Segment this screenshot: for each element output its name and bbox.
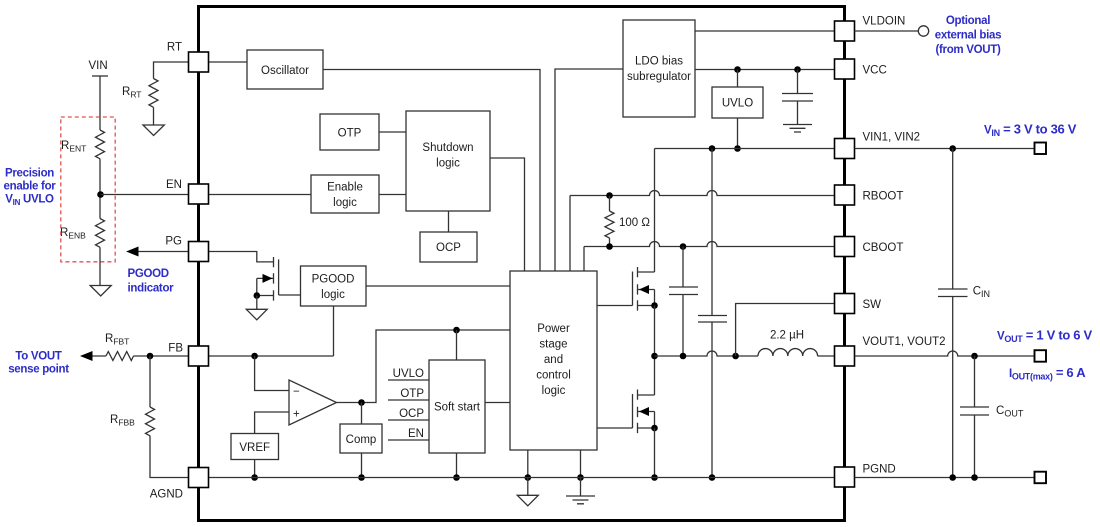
op-amp U3 <box>289 380 337 425</box>
wire EN external <box>101 194 189 196</box>
pin VIN1 VIN2 <box>835 139 855 159</box>
wire shutdown to OCP <box>448 211 450 232</box>
wire SW pin branch <box>736 304 835 357</box>
capacitor CBOOT <box>682 247 684 288</box>
wire LDO to VLDOIN <box>695 30 835 32</box>
svg-text:PGOOD: PGOOD <box>128 268 169 280</box>
terminal circle external bias <box>918 26 928 36</box>
wire VLDOIN external to bias terminal <box>855 30 919 32</box>
svg-text:CBOOT: CBOOT <box>863 242 904 254</box>
svg-text:−: − <box>293 386 300 398</box>
svg-text:Shutdown: Shutdown <box>422 142 473 154</box>
capacitor COUT <box>974 356 976 407</box>
svg-text:To VOUT: To VOUT <box>15 351 62 363</box>
svg-text:external bias: external bias <box>935 30 1001 42</box>
resistor R_RT <box>149 79 158 108</box>
node EN divider junction <box>97 191 104 198</box>
svg-text:EN: EN <box>408 428 424 440</box>
wire <box>99 247 101 285</box>
wire FB external / node <box>134 355 189 357</box>
svg-text:control: control <box>536 370 571 382</box>
wire FB to op-amp inverting input <box>255 356 289 391</box>
svg-text:Optional: Optional <box>946 15 990 27</box>
capacitor VCC bypass <box>797 70 799 94</box>
svg-text:Comp: Comp <box>346 434 377 446</box>
wire UVLO to VIN line <box>737 118 739 149</box>
resistor R_ENT <box>96 130 105 159</box>
resistor R_FBB <box>146 407 155 436</box>
wire PGOOD logic to FB line <box>333 306 335 356</box>
wire OTP to shutdown <box>379 131 406 133</box>
wire VIN down to high-side FET drain <box>654 149 656 273</box>
svg-text:EN: EN <box>166 179 182 191</box>
svg-text:UVLO: UVLO <box>393 368 424 380</box>
wire comp to rail <box>361 453 363 478</box>
wire to comp <box>361 403 363 425</box>
svg-text:PG: PG <box>165 236 182 248</box>
svg-text:LDO bias: LDO bias <box>635 56 683 68</box>
svg-text:VLDOIN: VLDOIN <box>863 16 906 28</box>
svg-text:100 Ω: 100 Ω <box>619 217 650 229</box>
resistor 100 ohm <box>609 196 611 212</box>
pin VCC <box>835 59 855 79</box>
svg-text:RBOOT: RBOOT <box>863 191 904 203</box>
svg-text:Oscillator: Oscillator <box>261 65 309 77</box>
wire EN pin to enable logic <box>209 194 312 196</box>
wire RT to R_RT <box>154 62 189 79</box>
OCP block <box>420 232 477 262</box>
pin FB <box>189 346 209 366</box>
svg-text:SW: SW <box>863 299 882 311</box>
transistor Q2 (low side) <box>597 427 633 429</box>
svg-text:OTP: OTP <box>338 128 362 140</box>
VREF block <box>231 434 279 460</box>
wire FET chain / SW node <box>654 306 656 396</box>
svg-text:AGND: AGND <box>150 489 183 501</box>
svg-text:Enable: Enable <box>327 182 363 194</box>
wire shutdown to power stage <box>490 158 525 271</box>
wire oscillator output <box>323 70 540 272</box>
svg-text:OTP: OTP <box>400 388 424 400</box>
ground (earth) under VCC cap <box>783 125 812 133</box>
wire PGOOD logic to power stage <box>366 285 510 287</box>
svg-text:Precision: Precision <box>5 168 54 180</box>
inductor L1 2.2uH <box>758 349 818 356</box>
wire VREF to rail <box>254 460 256 478</box>
wire VREF to op-amp non-inverting input <box>255 412 289 434</box>
power stage ground stubs <box>527 450 529 478</box>
terminal VIN <box>1035 143 1047 155</box>
wire CBOOT line <box>584 242 835 247</box>
capacitor internal bypass <box>698 316 727 323</box>
pin PG <box>189 242 209 262</box>
svg-text:VCC: VCC <box>863 65 887 77</box>
IC boundary U1 <box>199 7 845 521</box>
wire to soft start top <box>456 330 458 360</box>
wire soft start output <box>485 402 510 404</box>
oscillator U2 <box>247 50 323 89</box>
OTP block <box>320 114 379 150</box>
svg-text:VIN1, VIN2: VIN1, VIN2 <box>863 132 921 144</box>
svg-text:and: and <box>544 354 563 366</box>
svg-text:VIN: VIN <box>89 60 108 72</box>
wire PG indicator with arrow <box>129 251 189 253</box>
pin CBOOT <box>835 237 855 257</box>
svg-text:logic: logic <box>333 197 357 209</box>
capacitor CIN <box>952 149 954 290</box>
wire LDO to VCC <box>695 69 835 71</box>
ground under Q3 <box>256 296 258 310</box>
red dashed precision-enable box <box>61 117 115 262</box>
transistor Q3 (PGOOD open drain) <box>209 252 274 262</box>
ground (earth) <box>566 496 595 504</box>
svg-text:VOUT1, VOUT2: VOUT1, VOUT2 <box>863 336 946 348</box>
svg-text:stage: stage <box>539 339 567 351</box>
PGOOD logic block <box>301 266 367 306</box>
pin RT <box>189 52 209 72</box>
wire PGND external <box>855 477 1035 479</box>
wire soft start to rail <box>456 453 458 478</box>
LDO bias subregulator block <box>623 20 695 117</box>
wire RT to oscillator <box>209 61 248 63</box>
svg-text:OCP: OCP <box>399 408 424 420</box>
shutdown logic block <box>406 111 490 211</box>
wire to AGND <box>150 436 189 478</box>
transistor Q1 (high side) <box>597 305 633 307</box>
wire FB node down <box>149 356 151 407</box>
terminal PGND <box>1035 472 1047 484</box>
wire to sense arrow <box>83 355 106 357</box>
svg-text:VREF: VREF <box>239 442 270 454</box>
terminal VOUT <box>1035 350 1047 362</box>
svg-text:logic: logic <box>321 289 345 301</box>
resistor R_ENB <box>96 219 105 248</box>
wire enable to shutdown <box>379 194 406 196</box>
svg-text:UVLO: UVLO <box>722 98 753 110</box>
svg-text:VIN UVLO: VIN UVLO <box>5 194 54 207</box>
wire RBOOT line <box>570 191 835 196</box>
pin AGND <box>189 468 209 488</box>
svg-text:PGOOD: PGOOD <box>312 274 355 286</box>
svg-text:RT: RT <box>167 42 182 54</box>
wire VIN external <box>855 148 1035 150</box>
wire input bypass branch <box>711 149 713 316</box>
wire LDO left to power stage <box>555 69 623 271</box>
svg-text:FB: FB <box>168 343 183 355</box>
wire VIN down <box>99 76 101 130</box>
pin SW <box>835 294 855 314</box>
svg-text:OCP: OCP <box>436 242 461 254</box>
svg-text:PGND: PGND <box>863 464 896 476</box>
svg-text:Power: Power <box>537 323 570 335</box>
power stage block <box>510 271 597 450</box>
svg-text:sense point: sense point <box>8 364 69 376</box>
svg-text:subregulator: subregulator <box>627 71 691 83</box>
pin RBOOT <box>835 185 855 205</box>
pin VOUT1 VOUT2 <box>835 346 855 366</box>
comp block <box>340 424 382 453</box>
svg-text:logic: logic <box>436 158 460 170</box>
wire VIN internal <box>655 148 835 150</box>
enable logic block <box>311 175 379 213</box>
svg-text:(from VOUT): (from VOUT) <box>935 44 1001 56</box>
pin EN <box>189 184 209 204</box>
soft start block <box>429 360 485 453</box>
svg-text:indicator: indicator <box>128 283 175 295</box>
ground (triangle) under R_ENB <box>90 286 111 297</box>
svg-text:Soft start: Soft start <box>434 402 481 414</box>
pin VLDOIN <box>835 21 855 41</box>
svg-text:+: + <box>293 409 300 421</box>
wire op-amp output <box>337 330 511 403</box>
resistor R_FBT <box>106 352 134 361</box>
AGND internal rail <box>209 477 835 479</box>
ground (triangle) under R_RT <box>143 125 164 136</box>
pin PGND <box>835 467 855 487</box>
svg-text:logic: logic <box>542 385 566 397</box>
svg-text:enable for: enable for <box>4 181 57 193</box>
wire SW line with hop <box>655 351 759 356</box>
UVLO block <box>712 87 763 118</box>
wire <box>99 159 101 219</box>
svg-text:2.2 µH: 2.2 µH <box>770 330 804 342</box>
wire VOUT external with hop <box>855 351 1035 356</box>
wire VCC line to UVLO <box>737 70 739 88</box>
soft start input stubs <box>388 380 429 440</box>
ground (triangle) <box>517 495 538 506</box>
wire FB internal <box>209 355 334 357</box>
